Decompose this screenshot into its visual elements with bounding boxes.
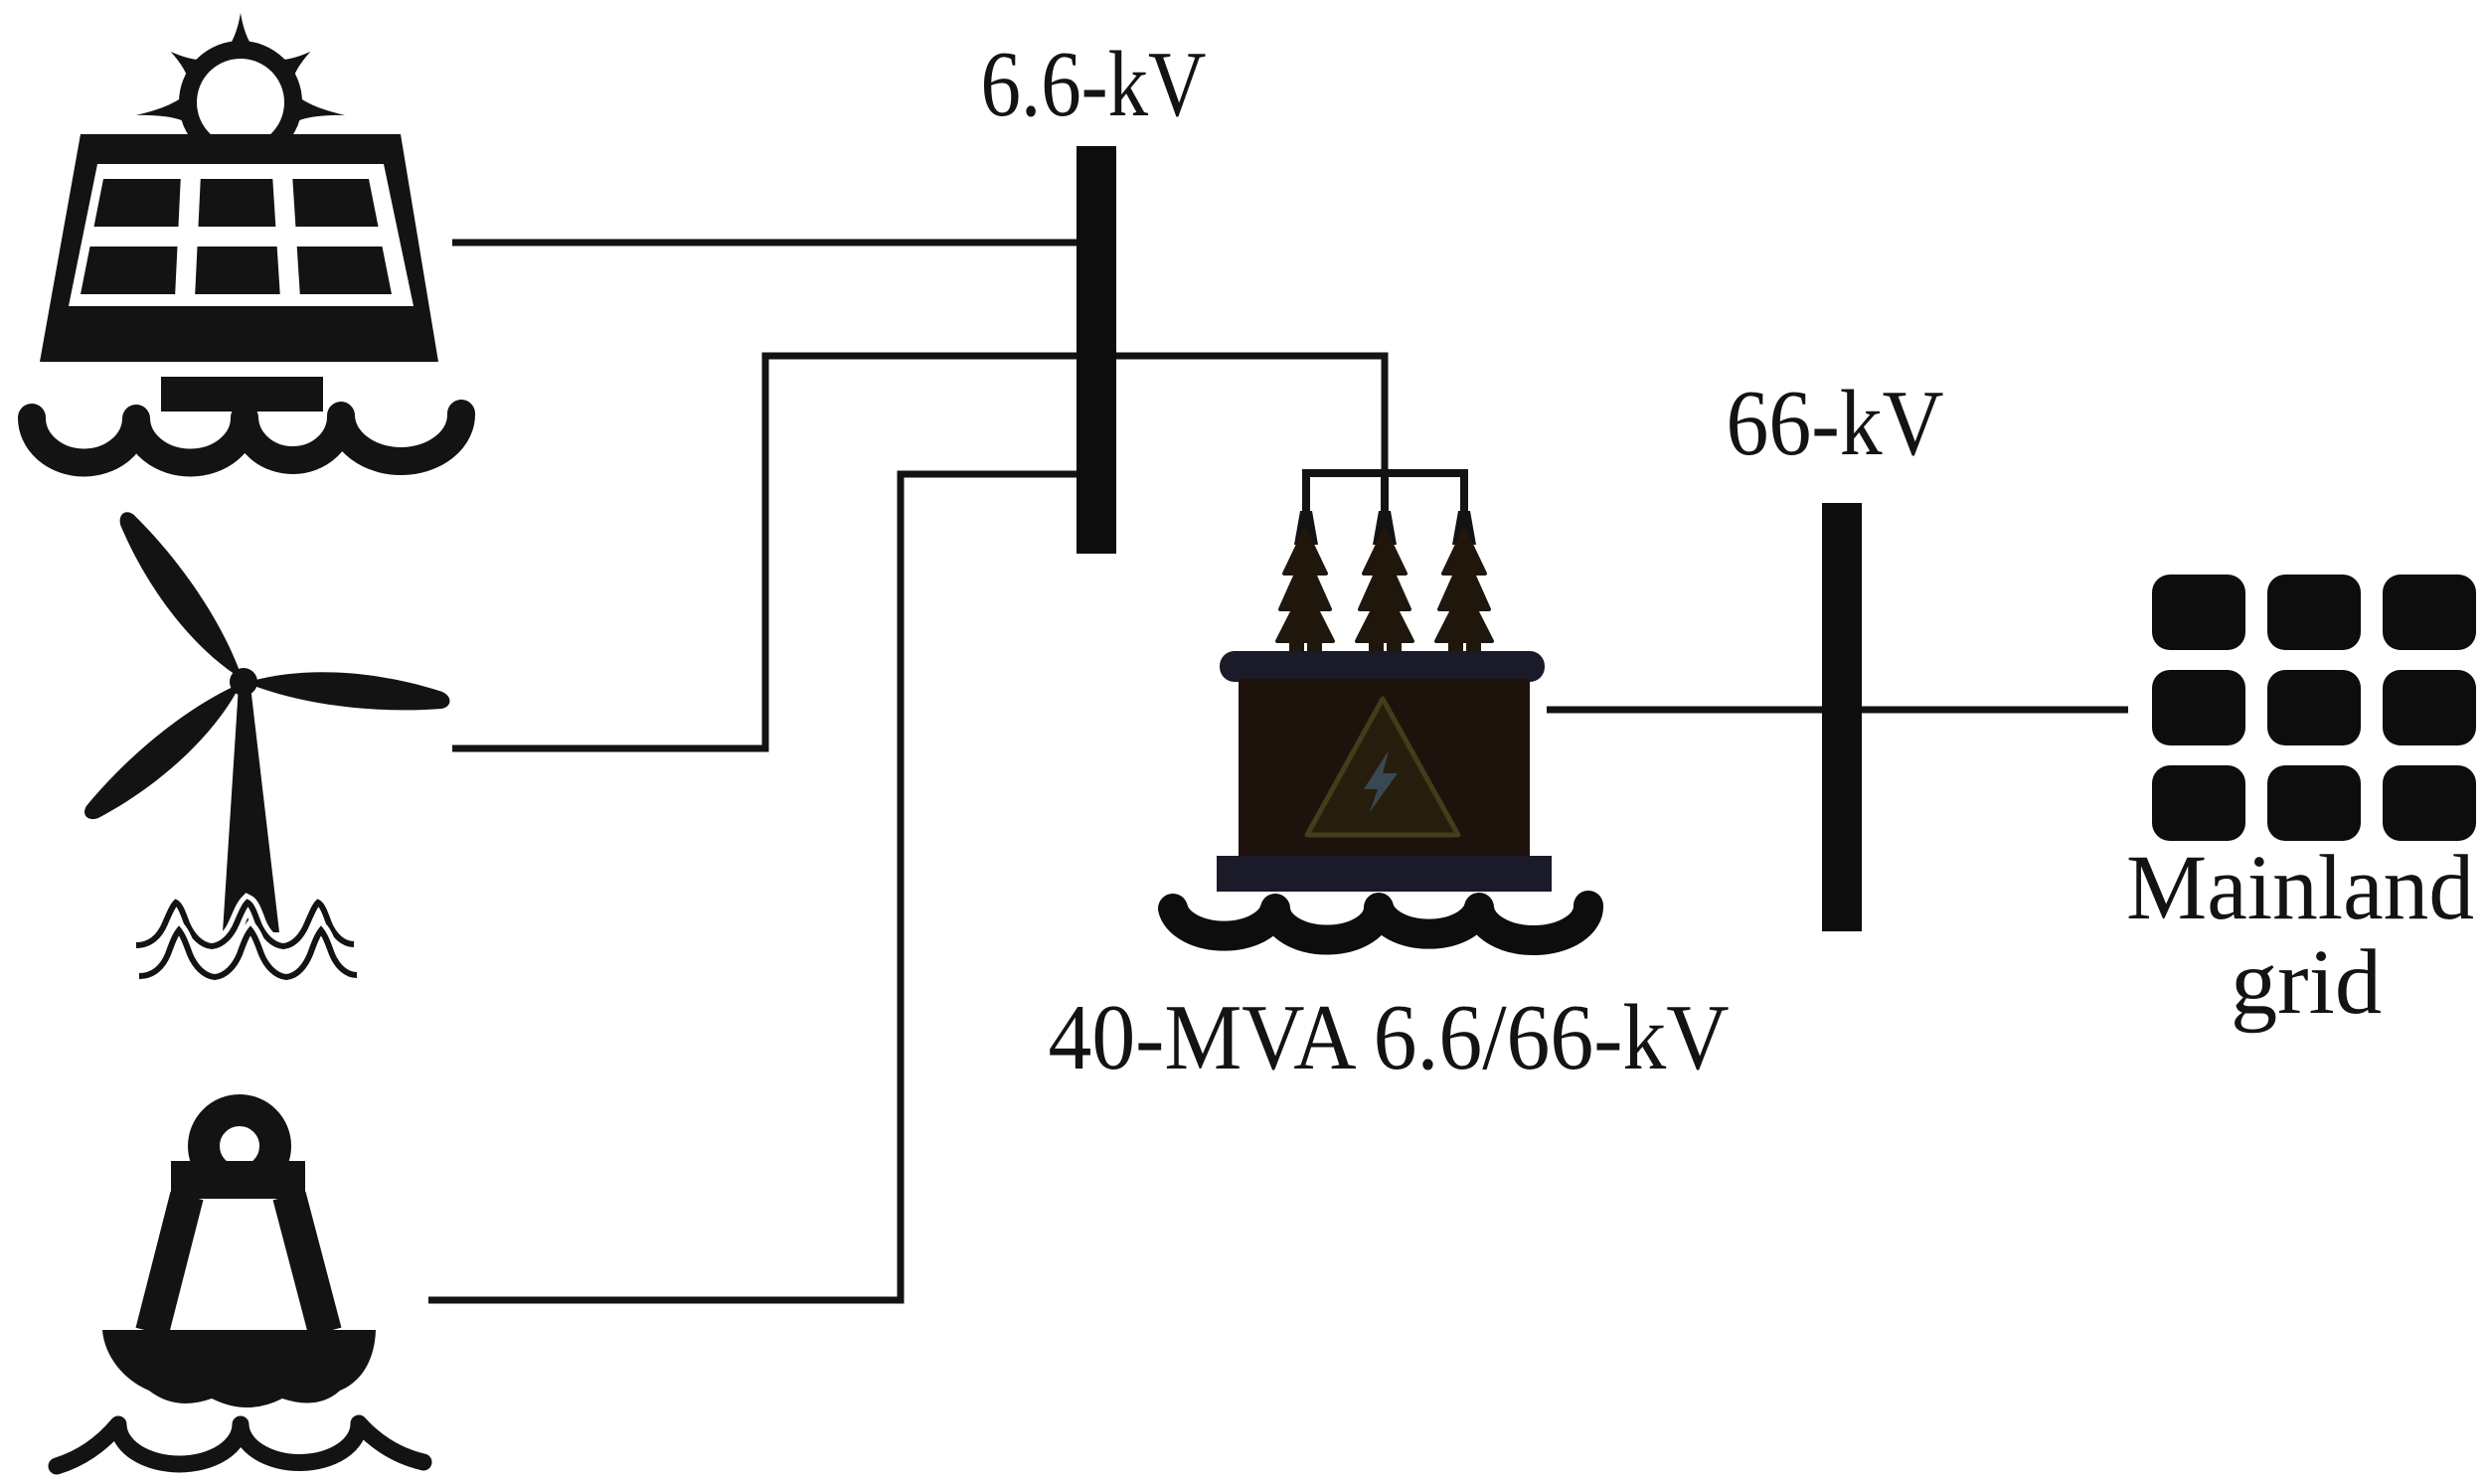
svg-text:66-kV: 66-kV [1727, 372, 1944, 475]
wire: solar to 6.6-kV bus [452, 240, 1096, 247]
transformer: pedestal [1217, 856, 1552, 892]
turbine waves row 2 [139, 930, 357, 977]
mainland grid icon [2152, 575, 2476, 841]
transformer: warning triangle [1307, 699, 1458, 835]
turbine waves row 1 [136, 903, 354, 946]
floating solar unit: panel [40, 134, 438, 362]
transformer: bushing 2 [1357, 530, 1412, 684]
transformer: bushing 1 [1277, 530, 1333, 684]
transformer: tank lid [1220, 651, 1545, 682]
transformer: bushing 3 [1436, 530, 1492, 684]
transformer: lightning bolt [1364, 750, 1398, 812]
svg-text:40-MVA 6.6/66-kV: 40-MVA 6.6/66-kV [1049, 986, 1730, 1089]
floating solar unit: pedestal [161, 377, 323, 412]
wire: buoy to bus [428, 474, 1096, 1300]
wind turbine [76, 504, 451, 977]
transformer: HV connector wires [1294, 473, 1476, 545]
svg-text:6.6-kV: 6.6-kV [981, 33, 1207, 136]
wire: turbine to bus/transformer [452, 356, 1385, 748]
svg-text:Mainland: Mainland [2126, 837, 2474, 939]
transformer: waves [1173, 906, 1588, 940]
wire: transformer to mainland grid [1547, 707, 2128, 714]
buoy [57, 1110, 423, 1466]
floating solar unit: waves [32, 413, 461, 462]
bus bar 66-kV [1822, 503, 1862, 931]
floating solar unit: sun [134, 13, 348, 155]
svg-text:grid: grid [2231, 931, 2382, 1034]
transformer: tank body [1239, 679, 1530, 856]
bus bar 6.6-kV [1077, 146, 1116, 554]
